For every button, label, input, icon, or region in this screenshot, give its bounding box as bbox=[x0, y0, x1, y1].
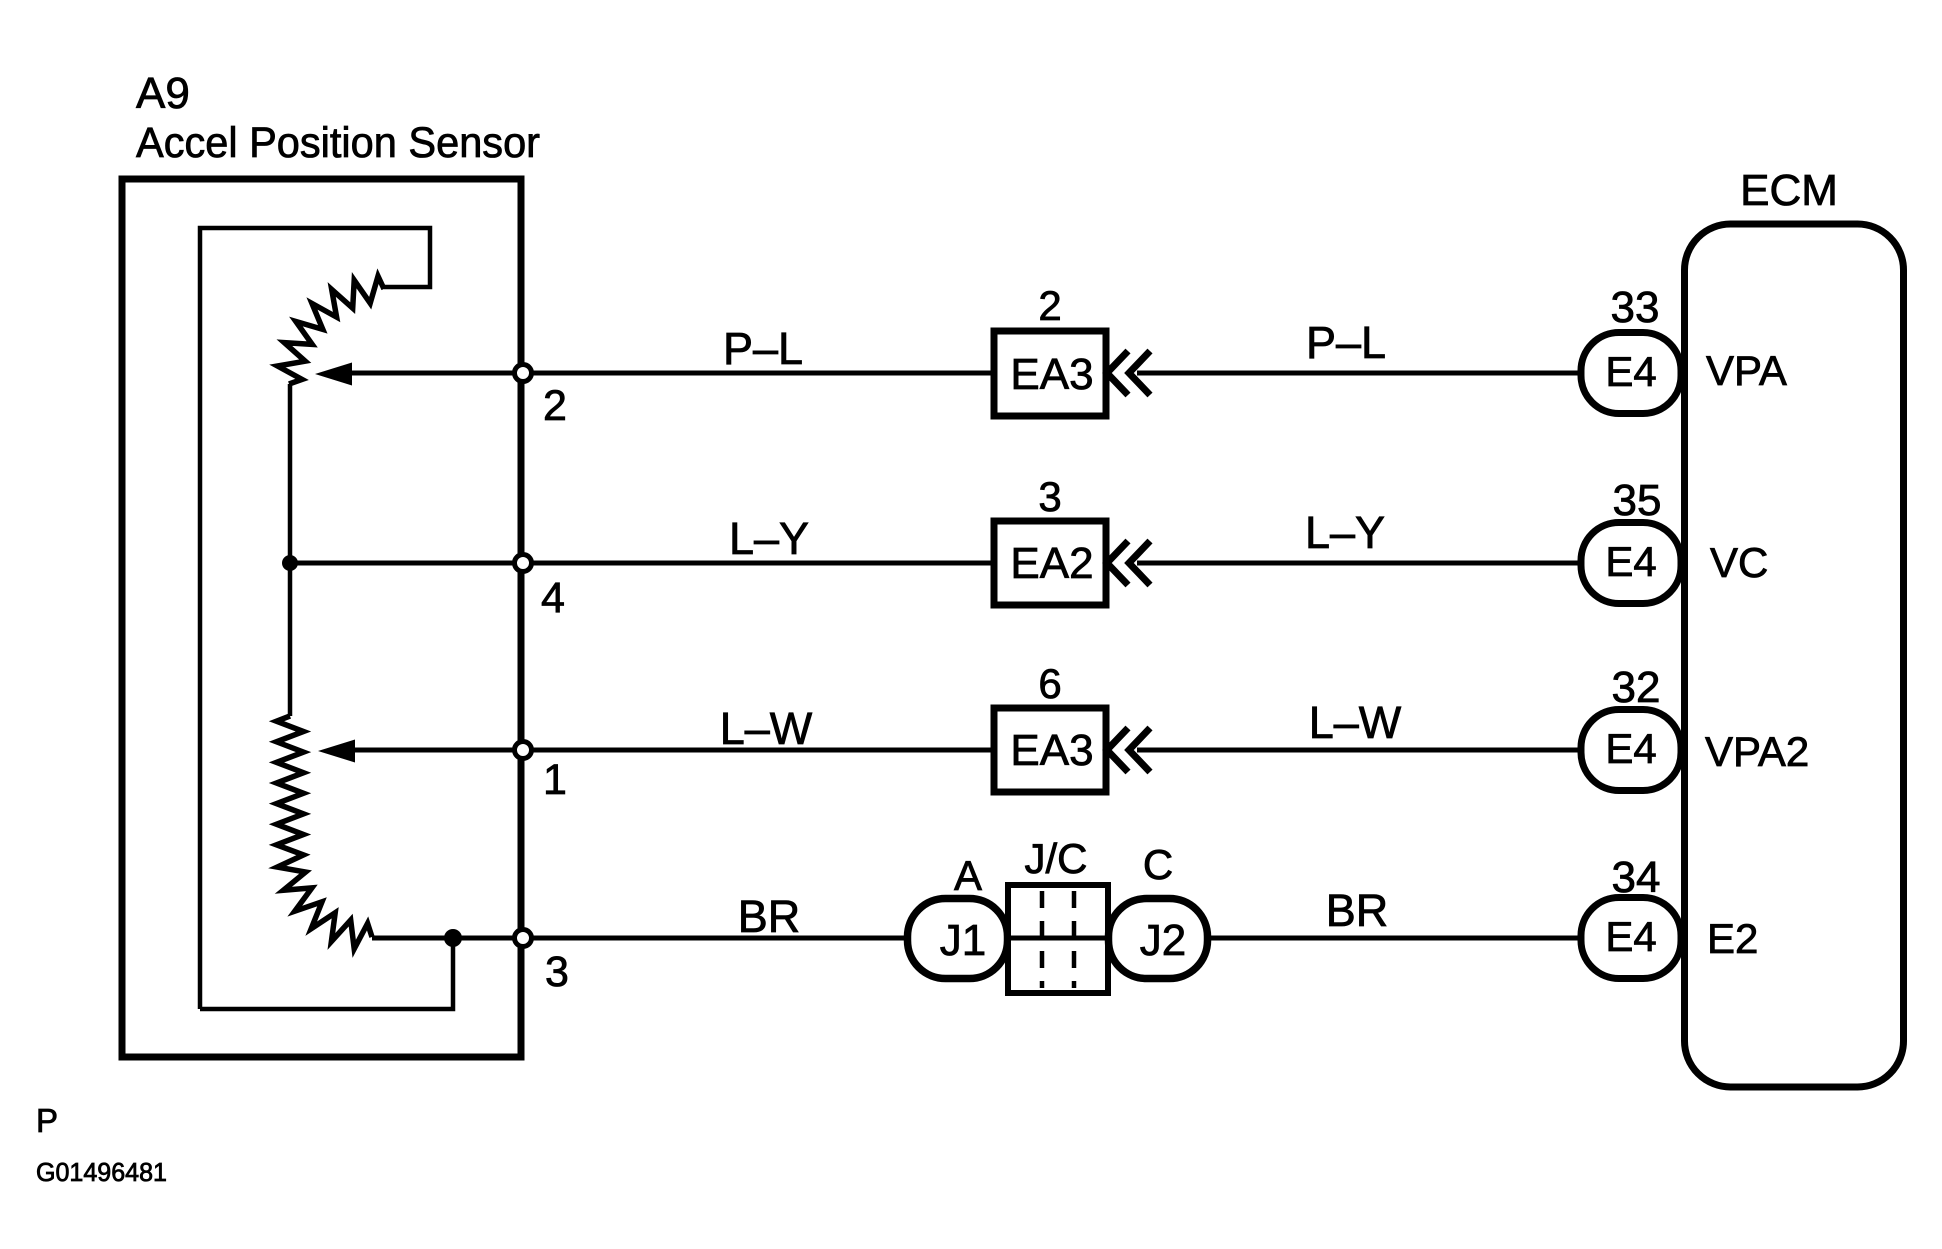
ECM pin E4 oval row4 bbox=[1581, 898, 1681, 979]
svg-text:4: 4 bbox=[541, 574, 565, 622]
wire: R2 end to pin 3 bbox=[372, 936, 521, 941]
wire row3: pin 1 to connector EA3 bbox=[521, 748, 994, 753]
svg-text:E4: E4 bbox=[1605, 348, 1656, 395]
svg-text:P: P bbox=[36, 1102, 58, 1139]
svg-text:L–W: L–W bbox=[1309, 697, 1402, 748]
junction block J/C dashed line 1 bbox=[1040, 891, 1045, 988]
svg-text:A: A bbox=[954, 852, 982, 899]
svg-text:L–Y: L–Y bbox=[729, 513, 809, 564]
svg-text:32: 32 bbox=[1612, 663, 1661, 712]
svg-text:EA2: EA2 bbox=[1010, 539, 1093, 588]
svg-text:L–W: L–W bbox=[720, 703, 813, 754]
svg-text:EA3: EA3 bbox=[1010, 350, 1093, 399]
sensor A9 outer box bbox=[122, 179, 521, 1057]
connector EA3 row1 box bbox=[994, 331, 1106, 416]
svg-text:2: 2 bbox=[1038, 282, 1061, 329]
wire row2: pin 4 to connector EA2 bbox=[521, 561, 994, 566]
svg-text:EA3: EA3 bbox=[1010, 726, 1093, 775]
wiper arrow W2 head bbox=[318, 740, 355, 763]
wire row1: pin 2 to connector EA3 bbox=[521, 371, 994, 376]
wire row4: pin 3 to junction J1 bbox=[521, 936, 907, 941]
chevrons row3 bbox=[1107, 728, 1128, 772]
pin 2 terminal circle bbox=[515, 365, 532, 382]
wire row2 right bbox=[1137, 561, 1581, 566]
svg-text:BR: BR bbox=[1326, 885, 1389, 936]
svg-text:J/C: J/C bbox=[1025, 835, 1088, 882]
chevrons row1 bbox=[1107, 351, 1128, 395]
junction block J/C dashed line 2 bbox=[1072, 891, 1077, 988]
ECM pin E4 oval row3 bbox=[1581, 710, 1681, 791]
node A junction dot bbox=[282, 555, 298, 571]
svg-text:E4: E4 bbox=[1605, 538, 1656, 585]
wire row3 right bbox=[1137, 748, 1581, 753]
pin 3 terminal circle bbox=[515, 930, 532, 947]
svg-text:2: 2 bbox=[543, 382, 567, 430]
svg-text:VPA2: VPA2 bbox=[1705, 728, 1809, 775]
svg-text:35: 35 bbox=[1613, 476, 1662, 525]
pin 1 terminal circle bbox=[515, 742, 532, 759]
connector EA2 row2 box bbox=[994, 521, 1106, 605]
svg-text:ECM: ECM bbox=[1740, 166, 1838, 215]
potentiometer R2 (lower, vertical+arc zigzag) bbox=[277, 716, 373, 949]
ECM pin E4 oval row1 bbox=[1581, 333, 1681, 414]
connector EA3 row3 box bbox=[994, 708, 1106, 792]
svg-text:1: 1 bbox=[543, 756, 567, 804]
ECM box bbox=[1685, 224, 1904, 1087]
potentiometer R1 (upper, arc zigzag) bbox=[278, 276, 385, 384]
wiper arrow W2 line (pin 1 to R2) bbox=[354, 748, 521, 753]
svg-text:3: 3 bbox=[545, 948, 569, 996]
junction block J/C box bbox=[1008, 885, 1108, 993]
svg-text:E4: E4 bbox=[1605, 913, 1656, 960]
svg-text:G01496481: G01496481 bbox=[36, 1157, 167, 1187]
svg-text:L–Y: L–Y bbox=[1305, 507, 1385, 558]
svg-text:E4: E4 bbox=[1605, 725, 1656, 772]
svg-text:VPA: VPA bbox=[1706, 347, 1787, 394]
svg-text:33: 33 bbox=[1611, 283, 1660, 332]
svg-text:VC: VC bbox=[1710, 539, 1768, 586]
wire: node A to pin 4 bbox=[290, 561, 521, 566]
junction connector J2 oval bbox=[1109, 899, 1208, 979]
svg-text:BR: BR bbox=[738, 891, 801, 942]
wiper arrow W1 head bbox=[315, 363, 352, 386]
svg-text:Accel Position Sensor: Accel Position Sensor bbox=[136, 119, 540, 167]
chevrons row2 bbox=[1107, 541, 1128, 585]
svg-text:P–L: P–L bbox=[723, 323, 803, 374]
pin 4 terminal circle bbox=[515, 555, 532, 572]
svg-text:J2: J2 bbox=[1140, 916, 1186, 965]
junction connector J1 oval bbox=[908, 899, 1008, 979]
svg-text:A9: A9 bbox=[136, 69, 190, 118]
svg-text:34: 34 bbox=[1612, 853, 1661, 902]
wire: R1 bottom to node A and on to R2 bbox=[288, 384, 293, 716]
wire row1 right: chevrons to E4 bbox=[1137, 371, 1581, 376]
wire: node B down and along inner bottom bbox=[200, 938, 453, 1009]
svg-text:E2: E2 bbox=[1707, 915, 1758, 962]
svg-text:P–L: P–L bbox=[1306, 317, 1386, 368]
svg-text:6: 6 bbox=[1038, 660, 1061, 707]
ECM pin E4 oval row2 bbox=[1581, 523, 1681, 604]
svg-text:3: 3 bbox=[1038, 473, 1061, 520]
svg-text:C: C bbox=[1143, 841, 1173, 888]
wire row4 right: J2 to E4 bbox=[1208, 936, 1581, 941]
svg-text:J1: J1 bbox=[940, 916, 986, 965]
wire: inner feed from top-left around to R1 top bbox=[200, 228, 430, 1009]
wiper arrow W1 line (pin 2 to R1) bbox=[351, 371, 521, 376]
node B junction dot bbox=[444, 929, 462, 947]
wire through J/C bbox=[1008, 936, 1108, 941]
